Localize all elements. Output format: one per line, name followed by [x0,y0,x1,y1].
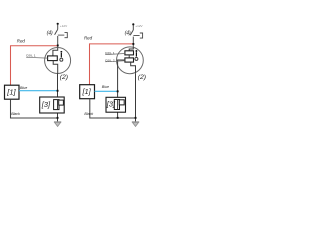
svg-text:+12V: +12V [60,24,68,28]
svg-text:(2): (2) [60,74,68,81]
svg-text:Red: Red [84,36,93,41]
svg-text:C0IL 1: C0IL 1 [105,51,115,55]
svg-text:C0IL 2: C0IL 2 [105,58,115,62]
svg-text:[1]: [1] [6,88,16,97]
svg-text:Blue: Blue [20,86,27,90]
svg-text:[1]: [1] [82,87,92,96]
svg-text:+12V: +12V [135,24,143,28]
svg-text:Red: Red [17,38,26,43]
svg-text:[3]: [3] [106,100,116,109]
svg-text:(2): (2) [138,74,146,81]
svg-text:Blue: Blue [102,85,109,89]
svg-text:Black: Black [11,112,20,116]
svg-text:(4): (4) [125,30,131,36]
svg-text:(4): (4) [47,31,53,37]
svg-text:C0IL 1: C0IL 1 [26,54,36,58]
svg-text:[3]: [3] [41,100,51,109]
svg-text:Black: Black [84,112,93,116]
